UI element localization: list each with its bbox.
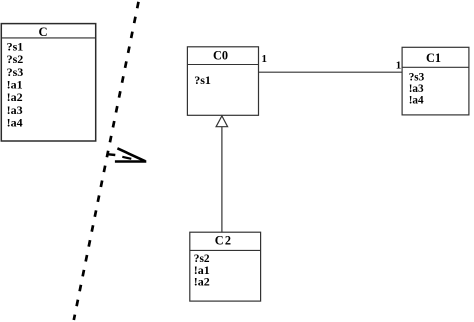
class box C2 [190,232,261,301]
svg-text:C0: C0 [213,48,228,62]
svg-text:!a2: !a2 [194,275,210,289]
arrow inner stroke [122,157,131,159]
svg-text:!a4: !a4 [7,116,23,130]
svg-text:C1: C1 [426,51,441,65]
arrow tail stroke [108,153,115,156]
svg-text:!a4: !a4 [409,95,424,107]
association line C0-C1 [259,71,403,73]
svg-text:1: 1 [262,53,268,65]
arrow bottom stroke [115,160,146,163]
svg-text:C2: C2 [215,233,232,247]
svg-text:1: 1 [396,60,402,72]
svg-text:?s3: ?s3 [409,71,425,83]
generalization triangle [216,116,228,127]
svg-text:C: C [38,25,47,39]
class box C0 [187,47,258,116]
class box C1 [402,47,469,115]
svg-text:!a3: !a3 [409,83,424,95]
dashed separator line [74,2,139,320]
generalization line C2-C0 [221,127,223,233]
class box C [1,24,95,141]
svg-text:?s1: ?s1 [194,73,211,87]
arrow upper diagonal stroke [117,148,145,161]
transformation arrow [108,148,146,161]
